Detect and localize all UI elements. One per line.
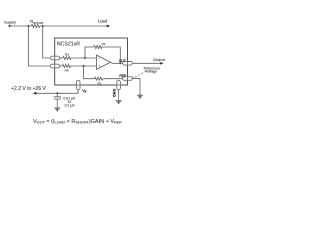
svg-text:Output: Output bbox=[153, 57, 166, 62]
resistor R2 bbox=[95, 77, 103, 80]
wire GND pin to ground bbox=[118, 90, 120, 101]
svg-text:RSHUNT: RSHUNT bbox=[30, 19, 44, 25]
junction feedback node upper bbox=[84, 57, 86, 59]
junction bypass cap node bbox=[56, 92, 58, 94]
svg-text:R2: R2 bbox=[97, 82, 101, 86]
pin VS (bottom) bbox=[76, 80, 80, 89]
ground arrow under capacitor bbox=[54, 107, 61, 112]
pin REF (right) bbox=[123, 77, 133, 81]
svg-text:NCS21xR: NCS21xR bbox=[57, 41, 80, 47]
wire supply rail left segment bbox=[10, 25, 32, 27]
resistor R1 bbox=[94, 45, 102, 48]
IC box NCS21xR bbox=[55, 38, 128, 85]
wire OUT to Output bbox=[132, 62, 160, 64]
junction left shunt node bbox=[27, 25, 29, 27]
junction output node bbox=[119, 62, 121, 64]
svg-text:R3: R3 bbox=[65, 53, 69, 57]
wire R1 to output node bbox=[102, 47, 120, 63]
arrow supply rail (points left) bbox=[32, 92, 36, 95]
wire left shunt node down to IN+ pin bbox=[28, 26, 50, 66]
svg-text:+2.2 V to +26 V: +2.2 V to +26 V bbox=[11, 86, 46, 92]
svg-text:VS: VS bbox=[82, 89, 86, 94]
svg-text:0.1 µF: 0.1 µF bbox=[65, 104, 75, 108]
op-amp minus marker bbox=[98, 57, 100, 59]
junction feedback node lower bbox=[83, 65, 85, 67]
wire right shunt node down to IN- pin bbox=[43, 26, 51, 58]
wire R4 to op-amp non-inverting input bbox=[71, 65, 97, 67]
arrow reference voltage (down) bbox=[137, 95, 144, 100]
resistor R4 bbox=[62, 64, 70, 67]
op-amp U1 bbox=[97, 55, 111, 69]
svg-text:Supply: Supply bbox=[4, 19, 16, 24]
svg-text:OUT: OUT bbox=[119, 59, 126, 63]
wire REF to reference voltage arrow bbox=[132, 79, 140, 96]
node Supply terminal dot bbox=[9, 25, 11, 27]
resistor R3 bbox=[63, 56, 71, 59]
svg-text:GND: GND bbox=[112, 89, 116, 98]
wire supply rail right segment bbox=[40, 25, 107, 27]
callout dashed arrow to REF net bbox=[134, 71, 146, 78]
svg-text:Voltage: Voltage bbox=[145, 70, 157, 74]
arrow to Load bbox=[107, 25, 111, 28]
wire op-amp output to OUT pin bbox=[111, 62, 123, 65]
resistor RSHUNT bbox=[31, 24, 40, 27]
wire IN+ pin to R4 bbox=[60, 65, 63, 67]
wire feedback down to R2 bbox=[84, 66, 95, 79]
wire VS supply rail bbox=[36, 90, 78, 94]
pin IN- (upper left) bbox=[50, 56, 59, 60]
op-amp plus marker bbox=[98, 65, 100, 67]
pin OUT (right) bbox=[123, 62, 133, 66]
pin GND (bottom) bbox=[117, 80, 121, 89]
arrow Output bbox=[160, 62, 163, 65]
junction right shunt node bbox=[42, 25, 44, 27]
svg-text:REF: REF bbox=[119, 74, 126, 78]
svg-text:Load: Load bbox=[98, 19, 108, 24]
wire IN- pin to R3 bbox=[60, 57, 63, 59]
wire feedback up to R1 bbox=[85, 47, 94, 58]
svg-text:VOUT = (ILOAD × RSHUNT)GAIN +: VOUT = (ILOAD × RSHUNT)GAIN + VREF bbox=[33, 119, 122, 125]
pin IN+ (lower left) bbox=[50, 64, 59, 68]
capacitor bypass (0.01uF to 0.1uF) bbox=[56, 93, 58, 97]
wire R2 to REF pin bbox=[103, 78, 123, 80]
svg-text:R1: R1 bbox=[102, 42, 106, 46]
ground arrow under GND pin bbox=[115, 100, 122, 105]
svg-text:R4: R4 bbox=[65, 69, 69, 73]
wire R3 to op-amp inverting input bbox=[71, 57, 97, 59]
